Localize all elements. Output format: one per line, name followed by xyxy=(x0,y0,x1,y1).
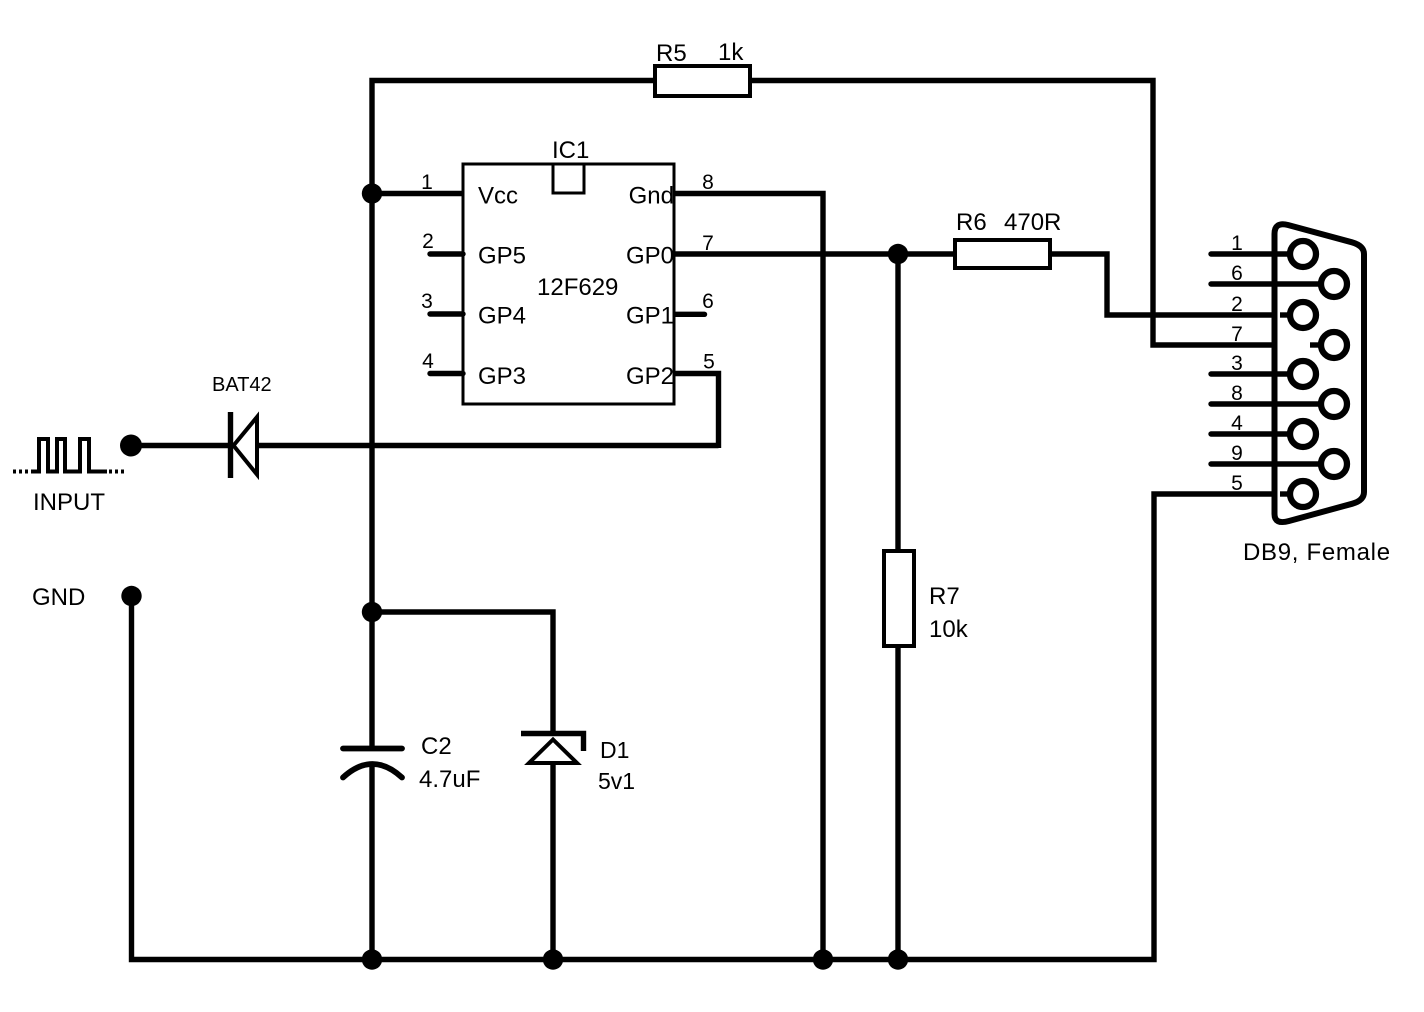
svg-text:BAT42: BAT42 xyxy=(212,374,272,396)
resistor R7 with labels R7 10k xyxy=(884,254,969,957)
wire IC pin 7 GP0 to R6 xyxy=(674,251,955,256)
svg-text:8: 8 xyxy=(1231,382,1243,405)
zener diode D1 triangle xyxy=(529,740,577,764)
wire from R5 to DB9 pin 7 xyxy=(750,81,1319,346)
DB9 pin 8 wire xyxy=(1211,401,1320,406)
node bottom rail C2 junction xyxy=(362,949,382,969)
svg-text:10k: 10k xyxy=(929,616,969,643)
DB9 socket hole pin 6 xyxy=(1321,271,1347,297)
svg-text:5v1: 5v1 xyxy=(598,768,635,794)
DB9 pin 2 wire into connector xyxy=(1280,312,1290,317)
wire Vcc vertical left rail and top rail to R5 xyxy=(372,81,655,747)
wire D1 bottom lead xyxy=(550,765,555,957)
svg-text:GP0: GP0 xyxy=(626,243,674,270)
DB9 socket hole pin 1 xyxy=(1290,241,1316,267)
node INPUT terminal xyxy=(120,435,142,457)
DB9 pin 6 wire xyxy=(1211,281,1320,286)
wire IC pin 5 GP2 down to input line xyxy=(674,374,719,449)
svg-text:1k: 1k xyxy=(718,39,744,66)
node Vcc junction xyxy=(362,183,382,203)
wire IC pin 8 Gnd to bottom rail xyxy=(674,194,823,958)
svg-text:R5: R5 xyxy=(656,40,687,67)
DB9 socket hole pin 3 xyxy=(1290,361,1316,387)
input waveform pulse train xyxy=(13,439,124,472)
svg-text:6: 6 xyxy=(1231,262,1243,285)
svg-text:5: 5 xyxy=(1231,472,1243,495)
DB9 pin 4 wire xyxy=(1211,431,1290,436)
svg-text:IC1: IC1 xyxy=(552,137,589,164)
DB9 socket hole pin 2 xyxy=(1290,302,1316,328)
wire junction to D1 branch xyxy=(372,612,553,731)
svg-text:5: 5 xyxy=(703,351,715,374)
wire IC pin 2 stub xyxy=(430,251,463,256)
svg-text:1: 1 xyxy=(1231,232,1243,255)
svg-text:7: 7 xyxy=(702,232,714,255)
resistor R5 with labels R5 1k xyxy=(655,39,750,96)
svg-text:R6: R6 xyxy=(956,209,987,236)
svg-text:2: 2 xyxy=(1231,293,1243,316)
node bottom rail Gnd-pin junction xyxy=(813,949,833,969)
svg-text:GP1: GP1 xyxy=(626,303,674,330)
svg-text:GP5: GP5 xyxy=(478,243,526,270)
DB9 socket hole pin 9 xyxy=(1321,451,1347,477)
wire IC pin 3 stub xyxy=(430,311,463,316)
wire INPUT node to diode xyxy=(131,443,228,448)
wire IC pin 6 GP1 stub xyxy=(674,312,705,317)
svg-text:12F629: 12F629 xyxy=(537,274,618,301)
node bottom rail R7 junction xyxy=(888,949,908,969)
svg-text:470R: 470R xyxy=(1004,209,1061,236)
svg-text:6: 6 xyxy=(702,290,714,313)
svg-text:3: 3 xyxy=(421,290,433,313)
node GND terminal xyxy=(121,586,141,606)
DB9 pin 9 wire xyxy=(1211,461,1320,466)
svg-text:4: 4 xyxy=(1231,412,1243,435)
svg-text:7: 7 xyxy=(1231,323,1243,346)
capacitor C2 curved bottom plate xyxy=(343,764,402,778)
svg-text:1: 1 xyxy=(421,171,433,194)
wire IC pin 4 stub xyxy=(430,371,463,376)
svg-text:4.7uF: 4.7uF xyxy=(419,766,480,793)
wire diode to GP2 line xyxy=(258,443,719,448)
svg-text:DB9, Female: DB9, Female xyxy=(1243,539,1391,566)
svg-text:GP4: GP4 xyxy=(478,303,526,330)
svg-text:8: 8 xyxy=(702,171,714,194)
wire GND net: down, bottom rail, up to DB9 pin 5 xyxy=(132,494,1290,960)
wire IC pin 1 to Vcc rail xyxy=(372,191,463,196)
label D1 5v1 xyxy=(598,737,635,794)
svg-text:C2: C2 xyxy=(421,733,452,760)
svg-text:9: 9 xyxy=(1231,442,1243,465)
DB9 socket hole pin 4 xyxy=(1290,421,1316,447)
zener diode D1 cathode bar with hook xyxy=(521,734,584,752)
DB9 connector J1 body outline xyxy=(1275,224,1365,522)
svg-text:3: 3 xyxy=(1231,352,1243,375)
node bottom rail D1 junction xyxy=(543,949,563,969)
DB9 pin 1 wire xyxy=(1211,251,1290,256)
svg-text:R7: R7 xyxy=(929,583,960,610)
svg-text:Vcc: Vcc xyxy=(478,183,518,210)
DB9 pin 5 wire into connector xyxy=(1280,491,1290,496)
svg-text:Gnd: Gnd xyxy=(629,183,674,210)
svg-text:D1: D1 xyxy=(600,737,629,763)
node C2 junction xyxy=(362,602,382,622)
svg-text:GP3: GP3 xyxy=(478,363,526,390)
DB9 socket hole pin 5 xyxy=(1290,481,1316,507)
node R7 junction xyxy=(888,244,908,264)
diode D2 BAT42 cathode bar xyxy=(228,412,233,478)
svg-text:2: 2 xyxy=(422,230,434,253)
IC U1 12F629 body with notch and labels xyxy=(463,137,674,404)
wire R6 to DB9 pin 2 xyxy=(1050,254,1289,315)
DB9 socket hole pin 7 xyxy=(1321,332,1347,358)
DB9 pin 7 wire into connector xyxy=(1310,342,1320,347)
resistor R6 with labels R6 470R xyxy=(955,209,1061,268)
svg-text:INPUT: INPUT xyxy=(33,489,105,516)
label C2 4.7uF xyxy=(419,733,480,793)
capacitor C2 top plate xyxy=(343,746,402,752)
svg-text:4: 4 xyxy=(422,350,434,373)
svg-text:GP2: GP2 xyxy=(626,363,674,390)
diode D2 BAT42 triangle xyxy=(234,417,258,475)
DB9 pin 3 wire xyxy=(1211,371,1290,376)
svg-text:GND: GND xyxy=(32,584,85,611)
wire C2 bottom lead xyxy=(369,766,374,957)
DB9 socket hole pin 8 xyxy=(1321,391,1347,417)
